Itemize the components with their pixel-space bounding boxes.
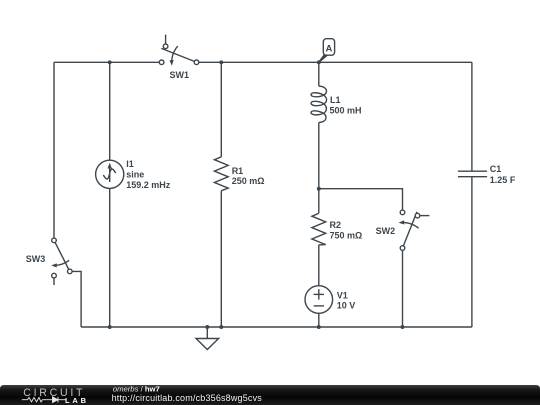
junction bottom / SW2 <box>401 325 405 329</box>
svg-text:SW1: SW1 <box>170 70 190 80</box>
svg-text:L1: L1 <box>330 95 341 105</box>
svg-text:A: A <box>325 43 332 54</box>
switch SW2 <box>399 210 430 250</box>
svg-text:1.25 F: 1.25 F <box>490 175 516 185</box>
CircuitLab footer bar <box>0 385 540 405</box>
svg-text:R2: R2 <box>330 220 342 230</box>
junction node A <box>317 60 321 64</box>
ground <box>196 327 219 350</box>
wire C1 branch bottom <box>471 177 473 327</box>
svg-text:C1: C1 <box>490 164 502 174</box>
resistor R1 <box>214 157 228 191</box>
wire L1 branch top <box>318 62 320 86</box>
junction mid bus <box>317 187 321 191</box>
wire top bus left (SW1 left) <box>54 61 159 63</box>
junction bottom / ground <box>205 325 209 329</box>
node A flag <box>319 39 335 63</box>
svg-text:159.2 mHz: 159.2 mHz <box>126 180 171 190</box>
svg-text:R1: R1 <box>232 166 244 176</box>
inductor L1 <box>311 86 327 122</box>
wire mid bus to SW2 <box>319 189 403 210</box>
wire I1 branch top <box>109 62 111 160</box>
junction top bus / I1 <box>108 60 112 64</box>
junction bottom / R1 <box>219 325 223 329</box>
voltage source V1 <box>305 286 333 314</box>
svg-text:500 mH: 500 mH <box>330 106 362 116</box>
junction bottom / V1 <box>317 325 321 329</box>
resistor R2 <box>312 213 326 245</box>
junction bottom / I1 <box>108 325 112 329</box>
CircuitLab logo schematic line <box>22 397 66 403</box>
wire R1 branch bottom <box>220 191 222 327</box>
wire I1 branch bottom <box>109 188 111 327</box>
capacitor C1 <box>458 171 487 177</box>
wire top bus right (SW1 right to C1 corner) <box>199 61 472 63</box>
svg-text:SW2: SW2 <box>376 226 396 236</box>
svg-text:10 V: 10 V <box>337 301 356 311</box>
switch SW3 <box>51 238 72 285</box>
wire L1 to R2 <box>318 122 320 213</box>
wire C1 branch top <box>471 62 473 171</box>
svg-text:http://circuitlab.com/cb356s8w: http://circuitlab.com/cb356s8wg5cvs <box>112 393 263 403</box>
switch SW1 <box>159 35 199 66</box>
wire R1 branch top <box>220 62 222 157</box>
wire SW2 to bottom bus <box>402 250 404 327</box>
wire left rail <box>53 62 55 238</box>
svg-text:250 mΩ: 250 mΩ <box>232 176 265 186</box>
svg-text:SW3: SW3 <box>26 254 46 264</box>
svg-text:LAB: LAB <box>65 396 89 405</box>
wire V1 to bottom bus <box>318 313 320 327</box>
svg-text:V1: V1 <box>337 290 348 300</box>
svg-text:750 mΩ: 750 mΩ <box>330 231 363 241</box>
junction top bus / R1 <box>219 60 223 64</box>
wire R2 to V1 <box>318 245 320 286</box>
current source I1 <box>96 160 124 188</box>
svg-text:sine: sine <box>126 169 144 179</box>
wire bottom bus <box>81 326 472 328</box>
wire SW3 common to bottom bus <box>72 271 81 327</box>
svg-text:I1: I1 <box>126 159 134 169</box>
